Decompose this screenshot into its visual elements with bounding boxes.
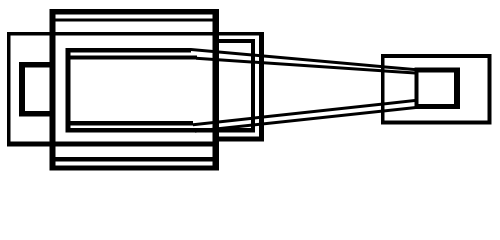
rect B right edge bbox=[259, 32, 264, 142]
body A top inner line bbox=[56, 18, 213, 21]
eyepiece F bottom edge bbox=[381, 121, 492, 125]
body A bottom edge bbox=[50, 166, 220, 171]
rect D bottom edge (continues as S bottom) bbox=[66, 128, 256, 133]
body A bottom inner line bbox=[56, 157, 213, 161]
rect D top edge bbox=[66, 48, 192, 52]
slant line U1 (upper outer, from D top to lens G top-left) bbox=[191, 48, 417, 71]
rect B top edge bbox=[7, 32, 264, 36]
slant line L1 (lower inner, from E bottom to lens G left) bbox=[193, 99, 417, 126]
rect D left edge bbox=[66, 48, 71, 133]
body A left edge bbox=[50, 9, 56, 171]
slant line L2 (lower outer, from D bottom to lens G bottom-left) bbox=[195, 106, 417, 133]
lens G top edge bbox=[415, 68, 461, 73]
plug C bottom edge bbox=[19, 111, 52, 117]
rect S top edge bbox=[213, 39, 255, 43]
rect E top line bbox=[71, 55, 198, 59]
lens G left edge bbox=[415, 68, 419, 110]
line drawing: projector/camera side view, black outlines on white bbox=[0, 0, 500, 179]
plug C top edge bbox=[19, 62, 52, 68]
rect B left edge bbox=[7, 32, 11, 147]
plug C left edge bbox=[19, 62, 25, 117]
rect E bottom line bbox=[71, 121, 194, 125]
body A top edge bbox=[50, 9, 220, 15]
lens G bottom edge bbox=[415, 104, 461, 109]
eyepiece F left edge bbox=[381, 54, 385, 125]
rect B bottom-right segment bbox=[213, 137, 264, 142]
body A right edge bbox=[213, 9, 220, 171]
rect B bottom-left segment bbox=[7, 142, 219, 147]
eyepiece F top edge bbox=[381, 54, 492, 58]
eyepiece F right edge bbox=[488, 54, 492, 125]
rect S right edge bbox=[251, 39, 255, 133]
slant line U2 (upper inner, from E top to lens G left) bbox=[196, 57, 417, 75]
lens G right edge bbox=[454, 68, 460, 110]
